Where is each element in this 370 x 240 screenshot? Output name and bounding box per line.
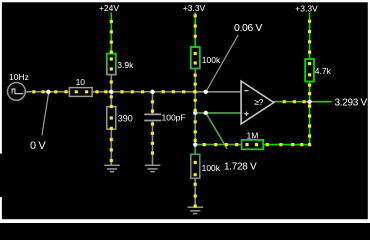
svg-text:≥?: ≥? xyxy=(254,98,263,107)
wire: diagonal from plus input node to feedback line xyxy=(206,113,227,149)
ground under C1 xyxy=(145,165,161,171)
svg-text:0 V: 0 V xyxy=(30,140,46,152)
wire: R6 bottom to ground xyxy=(194,178,196,207)
resistor R1 (10) xyxy=(69,77,92,96)
svg-text:+3.3V: +3.3V xyxy=(295,4,318,14)
wire: R4 bottom through node B junction xyxy=(194,69,196,145)
node B post left xyxy=(193,111,197,115)
svg-text:0.06 V: 0.06 V xyxy=(234,22,262,34)
ground under R6 xyxy=(188,207,204,213)
wire: +3.3V supply to R4 xyxy=(194,12,196,47)
svg-text:100k: 100k xyxy=(202,55,221,65)
resistor R6 (100k bottom) xyxy=(191,154,221,178)
annotation 0 V with pointer xyxy=(30,94,49,152)
ground under R3 xyxy=(104,165,120,171)
wire: +3.3V supply to R7 xyxy=(309,12,311,59)
current dots xyxy=(32,14,311,207)
svg-text:3.293 V: 3.293 V xyxy=(335,98,368,109)
svg-text:100k: 100k xyxy=(202,163,221,173)
wire: R7 bottom to output node xyxy=(309,82,311,102)
dots: bottom 100k branch xyxy=(194,161,197,164)
node A junction at R2/R3 xyxy=(109,90,113,94)
dots: feedback vertical xyxy=(308,104,311,107)
svg-text:1M: 1M xyxy=(246,130,258,140)
wire: node A horizontal run xyxy=(91,91,206,93)
wire: node A to R3 top xyxy=(110,92,112,107)
resistor R4 (100k top) xyxy=(191,47,221,69)
dots: main horizontal wire xyxy=(32,90,35,93)
svg-text:10Hz: 10Hz xyxy=(9,72,29,82)
svg-text:100pF: 100pF xyxy=(162,113,186,123)
node: output junction xyxy=(307,100,311,104)
wire: node B to R6 top xyxy=(194,145,196,155)
wire: C1 bottom to ground xyxy=(152,121,154,165)
annotation 0.06 V with pointer xyxy=(207,22,262,90)
node: source output xyxy=(46,90,50,94)
wire: U1 output run xyxy=(274,101,332,103)
dots: feedback horizontal xyxy=(308,143,311,146)
resistor R3 (390) xyxy=(107,107,133,129)
dots: +3.3V middle branch xyxy=(194,14,197,17)
svg-text:4.7k: 4.7k xyxy=(315,66,332,76)
square wave source V1 (10Hz) xyxy=(8,72,29,100)
svg-text:+24V: +24V xyxy=(99,3,119,13)
dots: capacitor branch xyxy=(151,100,154,103)
wire: node B stub to plus input xyxy=(195,112,241,114)
dots: output wire xyxy=(283,100,286,103)
resistor R5 (1M) xyxy=(242,130,264,149)
wire: source to resistor R1 xyxy=(25,91,69,93)
svg-text:3.9k: 3.9k xyxy=(117,60,134,70)
op-amp comparator U1 xyxy=(241,81,274,124)
capacitor C1 (100pF) xyxy=(144,113,185,123)
resistor R7 (4.7k) xyxy=(305,59,331,81)
node A junction at C1 xyxy=(150,90,154,94)
wire: feedback vertical from output xyxy=(309,102,311,145)
resistor R2 (3.9k) xyxy=(107,54,134,75)
node B feedback junction xyxy=(193,142,197,146)
wire: feedback right segment from R5 xyxy=(263,144,309,146)
wire: +24V supply to R2 xyxy=(110,13,112,54)
svg-text:390: 390 xyxy=(118,114,133,124)
svg-text:+3.3V: +3.3V xyxy=(183,3,206,13)
svg-text:1.728 V: 1.728 V xyxy=(224,162,257,173)
wire: inverting input of U1 xyxy=(206,91,241,93)
dots: 390 branch xyxy=(110,95,113,98)
svg-text:10: 10 xyxy=(76,77,86,87)
wire: node A to C1 top xyxy=(152,92,154,114)
node: inverting input post xyxy=(204,90,208,94)
wire: R3 bottom to ground xyxy=(110,129,112,165)
wire: feedback left segment to R5 xyxy=(195,144,241,146)
dots: 4.7k branch xyxy=(308,20,311,23)
dots: +24V branch xyxy=(110,20,113,23)
wire: R2 bottom to node A xyxy=(110,75,112,92)
node B post right xyxy=(204,111,208,115)
